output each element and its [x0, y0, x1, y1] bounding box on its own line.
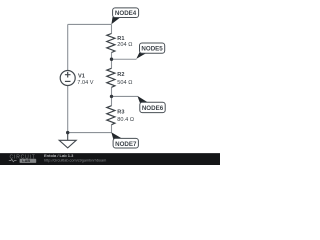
footer bar [0, 153, 220, 165]
value label R3 80.4 Ω [117, 110, 134, 124]
wire top horizontal from V1 to R1 [68, 23, 112, 25]
node NODE4 flag [111, 8, 138, 24]
wire stub to NODE5 [112, 58, 137, 60]
svg-text:504 Ω: 504 Ω [117, 80, 133, 86]
wire left vertical V1 bottom lead [67, 86, 69, 133]
svg-text:NODE4: NODE4 [115, 10, 137, 17]
wire R2 to R3 [111, 87, 113, 105]
ground [59, 133, 76, 148]
svg-text:NODE5: NODE5 [141, 46, 163, 53]
svg-text:7.04 V: 7.04 V [77, 80, 93, 86]
junction dot below R1 [110, 58, 113, 61]
value label V1 7.04 V [77, 74, 93, 87]
junction dot below R2 [110, 95, 113, 98]
value label R1 204 Ω [117, 36, 133, 48]
junction dot at ground [66, 131, 69, 134]
wire stub to NODE6 [112, 95, 138, 97]
svg-text:NODE6: NODE6 [142, 105, 164, 112]
resistor R2 [107, 68, 115, 87]
svg-text:NODE7: NODE7 [115, 141, 137, 148]
svg-text:V1: V1 [78, 74, 85, 80]
svg-text:http://circuitlab.com/c9gambnr: http://circuitlab.com/c9gambnrh6oam [44, 159, 106, 163]
svg-text:LAB: LAB [22, 159, 30, 163]
wire R3 bottom lead [111, 125, 113, 133]
svg-text:204 Ω: 204 Ω [117, 42, 133, 48]
voltage source V1 [60, 71, 75, 86]
node NODE7 flag [111, 132, 138, 148]
wire R1 to R2 [111, 53, 113, 69]
resistor R3 [107, 106, 115, 125]
resistor R1 [107, 34, 115, 53]
footer logo CIRCUIT LAB [9, 154, 36, 163]
svg-text:R3: R3 [117, 110, 124, 116]
svg-text:R1: R1 [117, 36, 124, 42]
node NODE5 flag [136, 43, 164, 59]
wire left vertical V1 top lead [67, 24, 69, 70]
value label R2 504 Ω [117, 72, 133, 86]
svg-text:80.4 Ω: 80.4 Ω [117, 117, 134, 123]
svg-text:R2: R2 [117, 72, 124, 78]
node NODE6 flag [137, 96, 165, 113]
wire bottom horizontal from ground junction to R3 [68, 132, 112, 134]
wire right vertical R1 top lead [111, 24, 113, 33]
svg-text:Entola / Lab 1.3: Entola / Lab 1.3 [44, 153, 74, 158]
